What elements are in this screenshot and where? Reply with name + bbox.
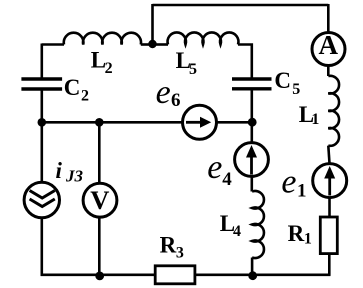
wire L5 to C5 branch corner bbox=[238, 45, 252, 78]
node bottom L4 bbox=[248, 271, 257, 280]
svg-text:5: 5 bbox=[189, 61, 197, 78]
svg-text:R: R bbox=[288, 221, 305, 246]
wire L1 to e1 bbox=[328, 146, 329, 164]
svg-text:V: V bbox=[90, 185, 109, 215]
wire right rail top bbox=[327, 4, 330, 32]
inductor L2 bbox=[64, 33, 141, 45]
wire node to e4 bbox=[251, 122, 254, 143]
wire V branch lower bbox=[98, 217, 101, 274]
svg-text:4: 4 bbox=[222, 169, 232, 190]
svg-text:5: 5 bbox=[292, 81, 300, 98]
wire e1 to R1 bbox=[328, 197, 331, 217]
svg-text:1: 1 bbox=[311, 111, 319, 128]
node V e6-row bbox=[95, 118, 104, 127]
wire top outer bbox=[153, 4, 329, 7]
node right e6-row bbox=[248, 118, 257, 127]
wire L4 to bottom bbox=[251, 258, 254, 275]
wire e4 to L4 bbox=[251, 177, 254, 192]
node top junction bbox=[148, 40, 156, 48]
wire bottom left bbox=[41, 273, 156, 276]
wire right rail bottom bbox=[328, 254, 331, 276]
svg-text:6: 6 bbox=[171, 90, 181, 111]
inductor L1 bbox=[328, 76, 339, 146]
svg-text:2: 2 bbox=[81, 88, 89, 105]
svg-text:i: i bbox=[56, 158, 63, 183]
svg-text:A: A bbox=[319, 30, 339, 60]
wire L2 to node bbox=[141, 43, 153, 46]
wire left rail upper bbox=[40, 44, 43, 78]
wire e6 row right bbox=[217, 121, 252, 124]
ammeter A bbox=[312, 33, 345, 66]
wire mid vertical top bbox=[151, 4, 154, 45]
wire e6 row left bbox=[42, 121, 184, 124]
svg-text:e: e bbox=[281, 163, 296, 200]
node left e6-row bbox=[38, 118, 47, 127]
inductor L5 bbox=[168, 32, 239, 44]
wire C5 to node bbox=[251, 90, 254, 122]
svg-text:1: 1 bbox=[304, 231, 312, 248]
resistor R1 bbox=[320, 217, 337, 254]
node bottom V bbox=[95, 272, 104, 281]
svg-text:2: 2 bbox=[105, 60, 113, 77]
svg-text:J3: J3 bbox=[65, 167, 84, 186]
wire iJ3 to bottom bbox=[40, 218, 43, 277]
wire top-left horizontal bbox=[42, 43, 64, 46]
capacitor C5 bbox=[232, 79, 272, 89]
current source iJ3 bbox=[24, 182, 59, 217]
svg-text:C: C bbox=[274, 68, 291, 93]
inductor L4 bbox=[252, 191, 264, 258]
capacitor C2 bbox=[21, 79, 62, 89]
svg-text:e: e bbox=[156, 74, 171, 111]
svg-text:4: 4 bbox=[233, 223, 241, 240]
svg-text:3: 3 bbox=[176, 244, 184, 261]
svg-text:C: C bbox=[64, 75, 81, 100]
svg-text:1: 1 bbox=[297, 180, 307, 201]
voltmeter V bbox=[83, 183, 117, 217]
source e6 bbox=[183, 105, 217, 139]
svg-text:R: R bbox=[160, 233, 177, 258]
source e4 bbox=[235, 143, 269, 177]
source e1 bbox=[313, 164, 347, 198]
wire left rail node to iJ3 bbox=[40, 122, 43, 182]
wire bottom right bbox=[195, 273, 331, 276]
wire V branch upper bbox=[98, 122, 101, 183]
wire A to L1 bbox=[327, 66, 330, 76]
resistor R3 bbox=[155, 266, 195, 284]
wire left rail C2 to node bbox=[40, 91, 43, 123]
wire node to L5 bbox=[153, 43, 169, 46]
svg-text:e: e bbox=[207, 149, 222, 186]
